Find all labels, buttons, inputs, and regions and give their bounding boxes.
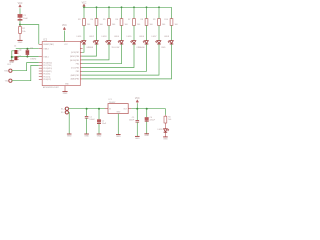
svg-text:R9: R9	[153, 19, 155, 21]
wire bus to R3	[83, 7, 85, 18]
node C4 tap	[146, 108, 148, 110]
svg-text:R8: R8	[140, 19, 142, 21]
wire VCC to C3	[19, 8, 21, 14]
node bus column 7	[158, 6, 160, 8]
svg-text:220uF: 220uF	[150, 120, 156, 122]
wire R5 to LED3	[108, 25, 110, 40]
wire LED6 to PB2	[82, 44, 147, 71]
power symbol VCC (MCU)	[62, 25, 67, 30]
wire C4 to ground	[146, 122, 148, 134]
wire bus to R10	[171, 7, 173, 18]
svg-text:RED: RED	[161, 47, 166, 49]
wire pad2 to PD1	[12, 65, 39, 80]
svg-text:LED6: LED6	[139, 36, 144, 38]
wire VCC bus rail	[84, 6, 172, 8]
svg-text:GND: GND	[63, 93, 68, 95]
pad X2-1	[4, 69, 12, 72]
svg-text:GND: GND	[116, 136, 121, 138]
svg-text:78L05Z: 78L05Z	[109, 102, 117, 104]
wire R1 to LED9	[164, 123, 166, 129]
pin stub XTAL2	[39, 48, 42, 50]
wire R2 to ground	[19, 33, 21, 40]
wire LED4 to PB4	[82, 44, 122, 64]
wire bus to R5	[108, 7, 110, 18]
wire LED9 to ground	[164, 132, 166, 136]
svg-text:GND: GND	[163, 138, 168, 140]
svg-text:LED1: LED1	[77, 36, 82, 38]
resistor R5 100	[103, 19, 115, 27]
power symbol VCC (LED rail)	[82, 2, 87, 7]
resistor R7 100	[128, 19, 140, 27]
ground (MCU)	[62, 91, 67, 93]
svg-text:XTAL2: XTAL2	[43, 48, 48, 51]
wire XTAL2 rail	[16, 48, 39, 50]
svg-text:PB4: PB4	[76, 64, 79, 66]
resistor R2 10k	[19, 25, 26, 34]
LED LED1	[77, 36, 94, 49]
svg-text:C7: C7	[19, 55, 21, 57]
pin stub IC1 IN	[105, 108, 108, 110]
svg-text:C6: C6	[14, 46, 16, 48]
wire LED1 to PB7	[82, 44, 84, 52]
wire R10 to LED8	[171, 25, 173, 40]
capacitor C5 100nF	[129, 117, 139, 122]
node VCC tap	[136, 108, 138, 110]
svg-text:TXD: TXD	[5, 81, 9, 83]
pin stub PB6	[80, 55, 82, 57]
svg-text:SV1: SV1	[7, 64, 11, 66]
node bus column 1	[83, 6, 85, 8]
svg-text:100: 100	[150, 24, 153, 26]
svg-text:10k: 10k	[22, 31, 25, 33]
svg-text:PD2(INT0): PD2(INT0)	[43, 68, 52, 70]
resistor R9 100	[153, 19, 165, 27]
node C2 tap	[98, 108, 100, 110]
node bus column 5	[133, 6, 135, 8]
wire C3 to node	[19, 21, 21, 25]
svg-text:100: 100	[125, 24, 128, 26]
ground (pad X1-2)	[67, 133, 72, 135]
resistor R10 100	[164, 19, 177, 27]
svg-text:LED4: LED4	[114, 36, 119, 38]
crystal Q1	[26, 48, 37, 61]
LED LED9	[158, 129, 169, 132]
wire LED2 to PB6	[82, 44, 97, 56]
wire caps to ground net	[12, 51, 15, 61]
wire bus to R9	[158, 7, 160, 18]
svg-text:R7: R7	[128, 19, 130, 21]
capacitor C1 100nF	[85, 116, 96, 121]
wire node to IC2 RESET pin	[20, 25, 39, 45]
svg-text:LED7: LED7	[152, 36, 157, 38]
svg-text:10uF: 10uF	[23, 18, 28, 20]
node C1 tap	[86, 108, 88, 110]
svg-text:(MOSI)PB5: (MOSI)PB5	[70, 60, 79, 62]
LED LED2	[89, 36, 98, 44]
wire C1 to ground	[86, 118, 88, 134]
capacitor C4 220uF (polarized)	[145, 117, 156, 122]
wire R7 to LED5	[133, 25, 135, 40]
svg-text:RESET(PA2): RESET(PA2)	[43, 43, 54, 46]
capacitor C7 22p	[14, 56, 18, 60]
node bus column 3	[108, 6, 110, 8]
wire node to C2	[98, 109, 100, 120]
wire R6 to LED4	[121, 25, 123, 40]
wire input rail to IC1 IN	[68, 108, 105, 110]
wire bus to R7	[133, 7, 135, 18]
ground (C4)	[144, 133, 149, 135]
LED LED5	[127, 36, 146, 49]
svg-text:OUT: OUT	[123, 109, 127, 111]
wire pad1 to PD0	[12, 63, 39, 71]
svg-text:LED8: LED8	[164, 36, 169, 38]
wire pad2 to ground	[67, 112, 70, 133]
svg-text:22p: 22p	[19, 50, 22, 52]
pin stub XTAL1	[39, 56, 42, 58]
svg-text:100nF: 100nF	[89, 119, 95, 121]
svg-text:X1-2: X1-2	[61, 112, 65, 114]
wire VCC tap	[136, 103, 138, 109]
ground (LED9)	[163, 136, 168, 138]
LED LED8	[164, 36, 173, 44]
svg-text:100nF: 100nF	[129, 120, 135, 122]
ground (crystal caps)	[10, 60, 15, 62]
regulator IC1 78L05Z	[108, 99, 128, 114]
ground (C1)	[84, 133, 89, 135]
pad X1-1	[61, 107, 69, 110]
wire LED5 to PB3	[82, 44, 134, 67]
svg-text:(SCK)PB7: (SCK)PB7	[71, 52, 79, 54]
wire node to C1	[86, 109, 88, 117]
wire LED7 to PB1	[82, 44, 159, 75]
svg-text:PD5(T1): PD5(T1)	[43, 76, 50, 78]
svg-text:16MHz: 16MHz	[30, 58, 36, 60]
svg-text:VCC: VCC	[62, 25, 67, 27]
pad X2-2	[5, 79, 12, 82]
pin stub PB4	[80, 63, 82, 65]
pad X1-2	[61, 111, 69, 114]
svg-text:100: 100	[175, 24, 178, 26]
svg-text:(OC1)PB3: (OC1)PB3	[71, 67, 79, 69]
svg-text:(AIN1)PB1: (AIN1)PB1	[71, 74, 80, 77]
svg-text:ORANGE: ORANGE	[136, 46, 145, 49]
svg-text:GND: GND	[84, 135, 89, 137]
svg-text:LED3: LED3	[102, 36, 107, 38]
svg-text:GREEN: GREEN	[86, 47, 93, 49]
svg-text:XTAL1: XTAL1	[43, 55, 48, 58]
resistor R8 100	[140, 19, 152, 27]
pin labels right	[64, 44, 79, 86]
wire bus to R4	[96, 7, 98, 18]
ground (C5)	[135, 135, 140, 137]
pin stub IC1 OUT	[128, 108, 131, 110]
wire LED8 to PB0	[82, 44, 172, 79]
wire LED3 to PB5	[82, 44, 109, 60]
resistor R6 100	[115, 19, 127, 27]
wire XTAL1 rail	[16, 56, 39, 58]
pin stub PB5	[80, 59, 82, 61]
ground (IC1)	[116, 134, 121, 136]
svg-text:RXD: RXD	[4, 71, 9, 73]
pin stub RESET	[39, 43, 42, 45]
power symbol VCC (5V rail)	[135, 98, 140, 103]
LED LED3	[102, 36, 120, 49]
svg-text:AT90S2313-10PC: AT90S2313-10PC	[43, 86, 60, 89]
power symbol VCC (reset chain)	[18, 3, 23, 8]
svg-text:100: 100	[100, 24, 103, 26]
junction node ground net	[11, 56, 13, 58]
wire C5 to ground	[136, 122, 138, 136]
svg-text:1k0: 1k0	[168, 119, 171, 121]
svg-text:LED5: LED5	[127, 36, 132, 38]
junction node RESET net	[19, 24, 21, 26]
svg-text:R4: R4	[90, 19, 92, 21]
svg-text:LED2: LED2	[89, 36, 94, 38]
svg-text:R3: R3	[78, 19, 80, 21]
svg-text:PB2: PB2	[76, 71, 79, 73]
node crystal bottom	[26, 56, 28, 58]
svg-text:PD0(RXD): PD0(RXD)	[43, 62, 52, 64]
pin stubs PD0-PD6 unconnected	[39, 48, 83, 79]
svg-text:100: 100	[87, 24, 90, 26]
svg-text:100: 100	[162, 24, 165, 26]
capacitor C2 10uF (polarized)	[97, 120, 107, 125]
pin stub PB1	[80, 74, 82, 76]
wire VCC to IC2	[63, 31, 65, 42]
capacitor C3 10uF (polarized)	[18, 14, 29, 20]
svg-text:R5: R5	[103, 19, 105, 21]
svg-text:R6: R6	[115, 19, 117, 21]
svg-text:(MISO)PB6: (MISO)PB6	[70, 56, 79, 58]
node bus column 6	[146, 6, 148, 8]
wire R3 to LED1	[83, 25, 85, 40]
svg-text:100: 100	[112, 24, 115, 26]
wire R4 to LED2	[96, 25, 98, 40]
svg-text:GND: GND	[97, 135, 102, 137]
svg-text:VCC: VCC	[135, 98, 140, 100]
resistor R3 100	[78, 19, 90, 27]
node bus column 4	[121, 6, 123, 8]
svg-text:LED9: LED9	[158, 129, 163, 131]
LED LED7	[152, 36, 166, 49]
svg-text:PD4(T0): PD4(T0)	[43, 74, 50, 76]
resistor R1 1k0	[164, 115, 171, 123]
svg-text:PD1(TXD): PD1(TXD)	[43, 65, 52, 67]
resistor R4 100	[90, 19, 102, 27]
wire bus to R8	[146, 7, 148, 18]
svg-text:GND: GND	[135, 138, 140, 140]
pin stub PB2	[80, 70, 82, 72]
svg-text:GND: GND	[67, 135, 72, 137]
svg-text:GND: GND	[18, 42, 23, 44]
pin stub PB0	[80, 78, 82, 80]
wire IC2 GND pin	[64, 86, 66, 92]
pin stub PB7	[80, 51, 82, 53]
svg-text:100: 100	[137, 24, 140, 26]
pin labels left	[43, 43, 54, 81]
ground (reset chain)	[17, 39, 22, 41]
svg-text:R10: R10	[164, 19, 167, 21]
wire node to C5	[136, 109, 138, 121]
node crystal top	[26, 48, 28, 50]
LED LED6	[139, 36, 148, 44]
node bus column 2	[96, 6, 98, 8]
wire bus to R6	[121, 7, 123, 18]
wire node to C4	[146, 109, 148, 118]
LED LED4	[114, 36, 123, 44]
svg-text:R1: R1	[168, 116, 170, 118]
wire R9 to LED7	[158, 25, 160, 40]
wire 5V output rail	[131, 109, 165, 115]
svg-text:Q1: Q1	[30, 48, 33, 50]
wire C2 to ground	[98, 124, 100, 134]
ground (C2)	[97, 133, 102, 135]
svg-text:(AIN0)PB0: (AIN0)PB0	[71, 78, 80, 81]
svg-text:PD6(ICP): PD6(ICP)	[43, 79, 51, 81]
svg-text:YELLOW: YELLOW	[111, 47, 119, 49]
wire IC1 GND to ground	[117, 114, 119, 135]
capacitor C6 22p	[14, 46, 22, 54]
svg-text:PD3(INT1): PD3(INT1)	[43, 71, 52, 73]
svg-text:X1-1: X1-1	[61, 109, 65, 111]
op IC2 AT90S2313 body	[42, 40, 80, 89]
wire R8 to LED6	[146, 25, 148, 40]
svg-text:GND: GND	[144, 135, 149, 137]
pin stub PB3	[80, 67, 82, 69]
